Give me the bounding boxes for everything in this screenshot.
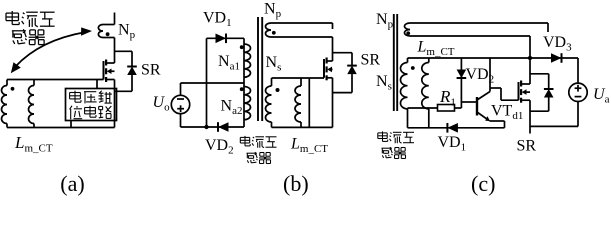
svg-text:(c): (c) <box>471 171 495 196</box>
svg-text:SR: SR <box>361 52 381 69</box>
svg-text:(b): (b) <box>283 171 309 196</box>
svg-text:SR: SR <box>517 138 537 155</box>
svg-text:SR: SR <box>141 62 161 79</box>
svg-text:(a): (a) <box>60 171 84 196</box>
